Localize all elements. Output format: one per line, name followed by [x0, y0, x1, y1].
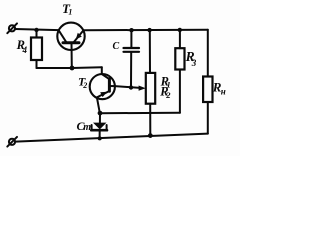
- svg-text:1: 1: [68, 8, 72, 17]
- svg-text:т: т: [83, 122, 91, 133]
- svg-text:C: C: [113, 41, 120, 52]
- svg-text:2: 2: [82, 81, 87, 90]
- svg-text:2: 2: [165, 90, 171, 100]
- svg-text:3: 3: [191, 58, 197, 68]
- svg-text:4: 4: [22, 45, 28, 55]
- svg-text:н: н: [221, 87, 226, 97]
